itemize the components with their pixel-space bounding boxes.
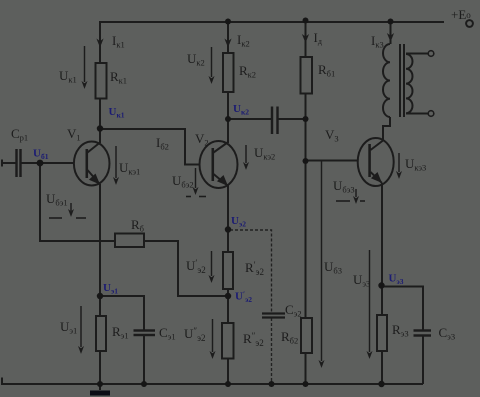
svg-text:+Eо: +Eо [451, 7, 471, 22]
